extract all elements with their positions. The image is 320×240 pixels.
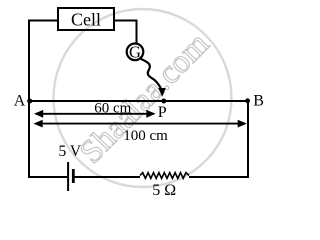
svg-text:Cell: Cell <box>71 10 101 30</box>
svg-text:G: G <box>129 43 141 62</box>
svg-text:B: B <box>253 93 264 110</box>
svg-text:60 cm: 60 cm <box>94 101 131 117</box>
svg-text:P: P <box>158 104 167 121</box>
svg-text:Shaalaa.com: Shaalaa.com <box>73 26 216 171</box>
svg-text:100 cm: 100 cm <box>123 128 168 144</box>
svg-text:5 Ω: 5 Ω <box>152 182 176 199</box>
svg-text:5 V: 5 V <box>59 143 82 160</box>
svg-text:A: A <box>14 93 26 110</box>
